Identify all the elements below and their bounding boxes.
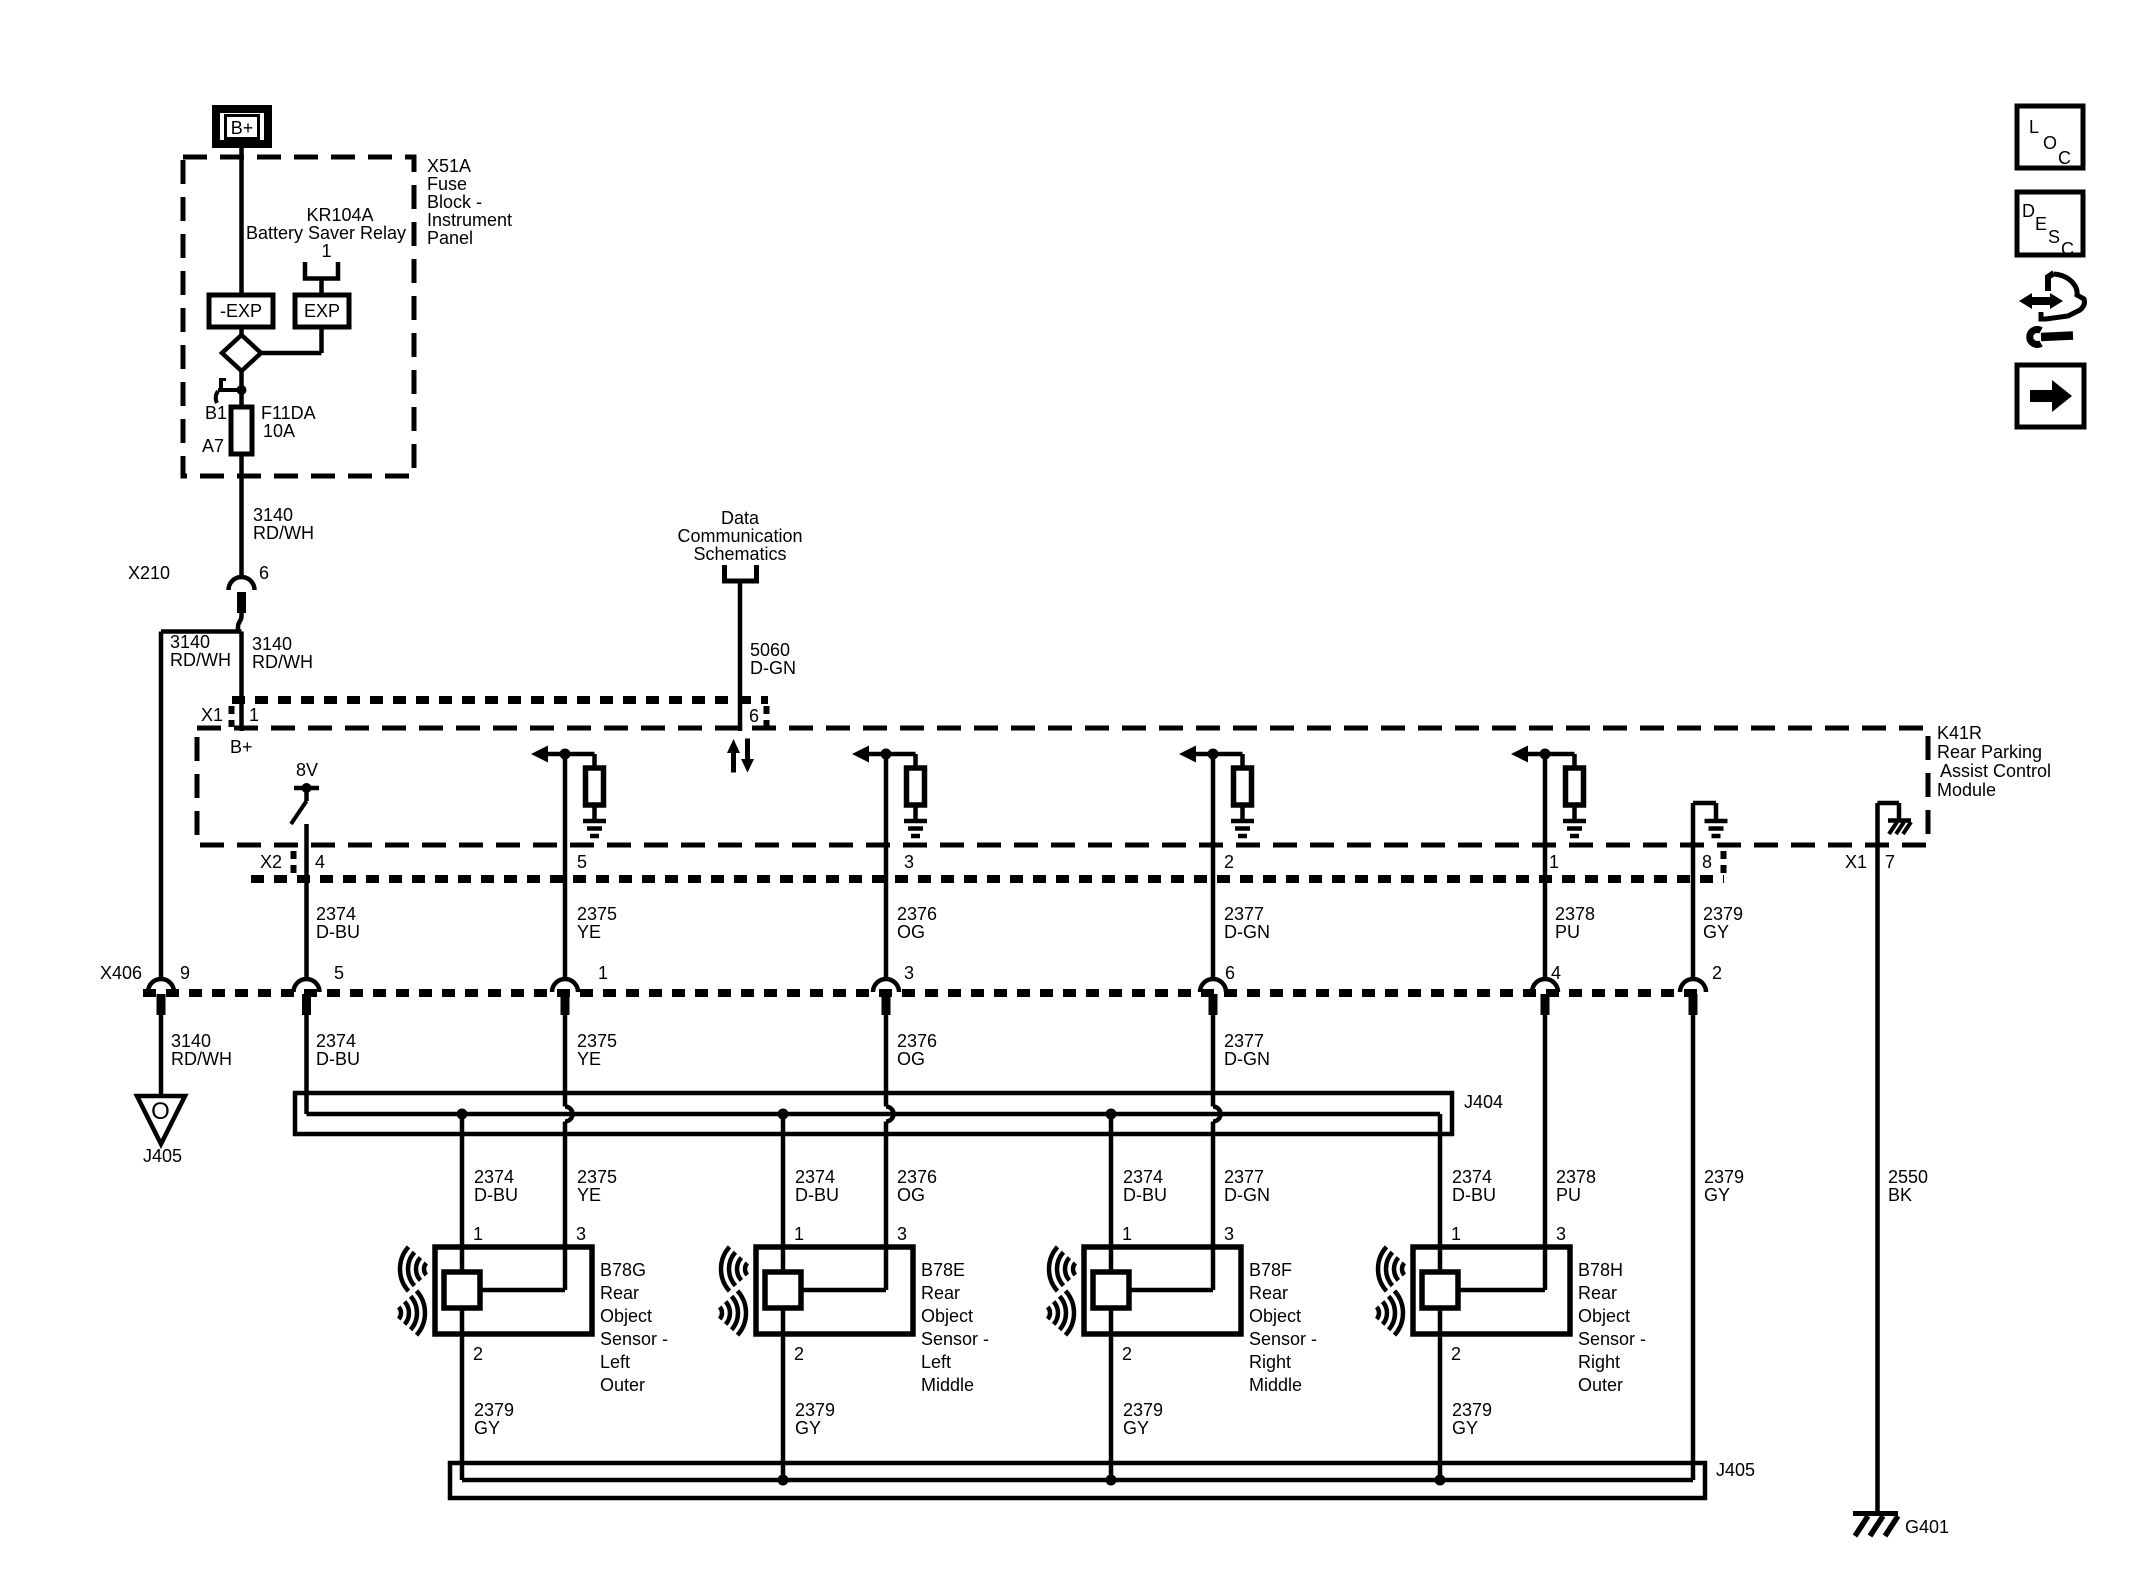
pin 2 of sensor B78F (1122, 1344, 1132, 1364)
pin 1 of X1 (249, 705, 259, 725)
svg-text:BK: BK (1888, 1185, 1912, 1205)
pin 2 of sensor B78G (473, 1344, 483, 1364)
svg-text:Right: Right (1249, 1352, 1291, 1372)
svg-text:1: 1 (598, 963, 608, 983)
wire internal ground to X2 pin 8 (1691, 803, 1696, 978)
pin 1 of sensor B78F (1122, 1224, 1132, 1244)
junction dot on J405 at x=783 (778, 1475, 789, 1486)
label wire 3140 RD/WH below X406 (171, 1031, 232, 1069)
signal arrow, junction, pull resistor R2 and ground inside module channel 2 (531, 746, 606, 837)
svg-text:RD/WH: RD/WH (170, 650, 231, 670)
label wire 2376 OG below J404 (897, 1167, 937, 1205)
svg-text:1: 1 (249, 705, 259, 725)
svg-text:C: C (2058, 148, 2071, 168)
junction dot on J405 at x=1440 (1435, 1475, 1446, 1486)
label X51A Fuse Block - Instrument Panel (427, 156, 512, 248)
svg-text:B78E: B78E (921, 1260, 965, 1280)
ultrasonic sensor B78E box (756, 1247, 913, 1334)
wire 2379 X406 pin 2 to J405 (1691, 1015, 1696, 1480)
pin 3 of X2 (904, 852, 914, 872)
svg-text:3: 3 (576, 1224, 586, 1244)
label wire 5060 D-GN (750, 640, 796, 678)
label wire 2379 GY between X2 and X406 (1703, 904, 1743, 942)
label wire 2374 D-BU sensor drop at x=783 (795, 1167, 839, 1205)
junction dot on J404 at x=1111 (1106, 1109, 1117, 1120)
svg-text:2374: 2374 (474, 1167, 514, 1187)
svg-text:Outer: Outer (600, 1375, 645, 1395)
wire 2374 drop to sensor pin 1 at x=462 (460, 1114, 465, 1272)
svg-text:YE: YE (577, 922, 601, 942)
signal arrow, junction, pull resistor R4 and ground inside module channel 4 (1179, 746, 1254, 837)
svg-text:RD/WH: RD/WH (252, 652, 313, 672)
svg-text:A7: A7 (202, 436, 224, 456)
svg-text:2379: 2379 (1704, 1167, 1744, 1187)
svg-text:2550: 2550 (1888, 1167, 1928, 1187)
signal arrow, junction, pull resistor R5 and ground inside module channel 5 (1511, 746, 1586, 837)
svg-text:OG: OG (897, 1049, 925, 1069)
wire 2379 GY sensor B78E pin 2 to J405 (781, 1308, 786, 1480)
internal wire pin 3 to transducer of B78G (480, 1288, 565, 1293)
svg-text:D-BU: D-BU (795, 1185, 839, 1205)
splice pack J404 outline (295, 1093, 1452, 1134)
relay contact switch (216, 371, 247, 407)
svg-text:3140: 3140 (253, 505, 293, 525)
pin 5 of X2 (577, 852, 587, 872)
svg-text:Right: Right (1578, 1352, 1620, 1372)
label wire 2374 D-BU sensor drop at x=1440 (1452, 1167, 1496, 1205)
svg-text:K41R: K41R (1937, 723, 1982, 743)
pin 5 of X406 with connector symbol (294, 963, 345, 1015)
svg-text:GY: GY (795, 1418, 821, 1438)
icon DESC box (2017, 192, 2083, 259)
icon forward arrow box (2017, 365, 2084, 427)
label wire 2378 PU below J404 (1556, 1167, 1596, 1205)
internal wire pin 3 to transducer of B78F (1129, 1288, 1213, 1293)
connector X210 pin 6 (128, 563, 269, 613)
pin 7 of X1 (1885, 852, 1895, 872)
label X1 at pin 7 exit (1845, 852, 1867, 872)
ultrasonic sensor B78F box (1084, 1247, 1241, 1334)
sound waves icon of B78G (399, 1247, 427, 1335)
svg-text:D-BU: D-BU (316, 1049, 360, 1069)
module K41R dashed outline (197, 728, 1928, 845)
switch contact 8V sensor supply (291, 783, 319, 824)
label wire 2379 GY at sensor B78E (795, 1400, 835, 1438)
label wire 2374 D-BU sensor drop at x=1111 (1123, 1167, 1167, 1205)
svg-text:1: 1 (794, 1224, 804, 1244)
svg-text:Sensor -: Sensor - (921, 1329, 989, 1349)
svg-text:2377: 2377 (1224, 1167, 1264, 1187)
svg-text:B78H: B78H (1578, 1260, 1623, 1280)
svg-text:Rear Parking: Rear Parking (1937, 742, 2042, 762)
internal chassis ground symbol at X1 pin 7 (1878, 803, 1912, 834)
pin 1 of X2 (1549, 852, 1559, 872)
svg-text:Object: Object (921, 1306, 973, 1326)
connector X1 left bracket (229, 706, 235, 727)
connector X2 right bracket (1721, 851, 1727, 875)
label KR104A Battery Saver Relay 1 (246, 205, 406, 261)
label J405 splice pack (1716, 1460, 1755, 1480)
splice bus wire inside J405 (462, 1478, 1693, 1483)
wire 2379 GY sensor B78H pin 2 to J405 (1438, 1308, 1443, 1480)
svg-text:J405: J405 (143, 1146, 182, 1166)
svg-text:D-BU: D-BU (316, 922, 360, 942)
svg-text:Left: Left (600, 1352, 630, 1372)
label sensor B78F (1249, 1260, 1317, 1395)
svg-text:2377: 2377 (1224, 904, 1264, 924)
svg-text:Middle: Middle (1249, 1375, 1302, 1395)
svg-text:Sensor -: Sensor - (1578, 1329, 1646, 1349)
pin 2 of X406 with connector symbol (1680, 963, 1722, 1015)
pin 1 of sensor B78E (794, 1224, 804, 1244)
svg-text:D-BU: D-BU (1452, 1185, 1496, 1205)
label sensor B78E (921, 1260, 989, 1395)
connector X2 left bracket (291, 851, 297, 875)
svg-text:2374: 2374 (795, 1167, 835, 1187)
label wire 2379 GY below J404 (1704, 1167, 1744, 1205)
power symbol B+ (battery positive box) (216, 109, 268, 144)
svg-text:2: 2 (1451, 1344, 1461, 1364)
bidirectional data arrows at X1 pin 6 (727, 739, 754, 773)
svg-text:2376: 2376 (897, 1031, 937, 1051)
label wire 2375 YE between X2 and X406 (577, 904, 617, 942)
svg-text:B+: B+ (231, 118, 254, 138)
wire 2374 into J404 and along splice bus (307, 1015, 1441, 1272)
terminal box -EXP (209, 295, 273, 327)
svg-text:Block -: Block - (427, 192, 482, 212)
svg-text:D-GN: D-GN (1224, 1185, 1270, 1205)
svg-text:OG: OG (897, 1185, 925, 1205)
pin 3 of sensor B78H (1556, 1224, 1566, 1244)
svg-text:X406: X406 (100, 963, 142, 983)
pin 3 of sensor B78E (897, 1224, 907, 1244)
svg-text:2379: 2379 (1703, 904, 1743, 924)
svg-text:2376: 2376 (897, 1167, 937, 1187)
wire channel 2 junction to X2 (563, 754, 568, 978)
connector row X2 dotted line (251, 875, 1724, 883)
pin 2 of sensor B78H (1451, 1344, 1461, 1364)
pin 3 of sensor B78F (1224, 1224, 1234, 1244)
splice pack J405 outline (450, 1463, 1705, 1498)
fuse block X51A dashed outline (183, 157, 414, 476)
svg-text:3140: 3140 (171, 1031, 211, 1051)
wire 2379 GY sensor B78G pin 2 to J405 (460, 1308, 465, 1480)
pin 6 of X406 with connector symbol (1200, 963, 1235, 1015)
relay KR104A coil symbol (305, 262, 338, 295)
wire fuse to connector X210 (239, 454, 244, 577)
connector row X406 dotted line (143, 989, 1706, 997)
svg-text:2379: 2379 (1123, 1400, 1163, 1420)
fuse F11DA 10A (231, 407, 252, 454)
svg-text:5: 5 (577, 852, 587, 872)
svg-text:2374: 2374 (316, 1031, 356, 1051)
pin 6 of X1 (749, 706, 759, 726)
wire 5060 D-GN to module X1 pin 6 (738, 581, 743, 731)
pin 1 of sensor B78G (473, 1224, 483, 1244)
label wire 3140 RD/WH above X210 (253, 505, 314, 543)
svg-text:2379: 2379 (474, 1400, 514, 1420)
label wire 2379 GY at sensor B78H (1452, 1400, 1492, 1438)
svg-text:Assist Control: Assist Control (1940, 761, 2051, 781)
wire 3140 RD/WH X406 pin 9 to J405 reference (159, 1015, 164, 1096)
svg-text:1: 1 (1451, 1224, 1461, 1244)
wire 8V switch to X2 pin 4 (304, 824, 309, 978)
label wire 2378 PU between X2 and X406 (1555, 904, 1595, 942)
connector row X1 dotted line (232, 696, 768, 704)
svg-text:O: O (2043, 133, 2057, 153)
svg-text:2374: 2374 (1123, 1167, 1163, 1187)
svg-text:5060: 5060 (750, 640, 790, 660)
svg-text:Left: Left (921, 1352, 951, 1372)
ground G401 chassis symbol (1853, 1514, 1898, 1537)
pin 2 of X2 (1224, 852, 1234, 872)
wire crossing J404 with hop at x=886 (886, 1015, 894, 1290)
svg-text:10A: 10A (263, 421, 295, 441)
svg-text:2379: 2379 (1452, 1400, 1492, 1420)
svg-text:2375: 2375 (577, 1167, 617, 1187)
label wire 3140 RD/WH right (252, 634, 313, 672)
label J404 (1464, 1092, 1503, 1112)
svg-text:6: 6 (1225, 963, 1235, 983)
junction dot on J404 at x=783 (778, 1109, 789, 1120)
label wire 2379 GY at sensor B78G (474, 1400, 514, 1438)
svg-text:2378: 2378 (1556, 1167, 1596, 1187)
transducer element of B78G (444, 1272, 480, 1308)
svg-text:3: 3 (1556, 1224, 1566, 1244)
svg-text:Panel: Panel (427, 228, 473, 248)
svg-text:OG: OG (897, 922, 925, 942)
svg-text:EXP: EXP (304, 301, 340, 321)
svg-text:D: D (2022, 201, 2035, 221)
signal arrow, junction, pull resistor R3 and ground inside module channel 3 (852, 746, 927, 837)
label wire 2374 D-BU sensor drop at x=462 (474, 1167, 518, 1205)
svg-text:Object: Object (1249, 1306, 1301, 1326)
svg-text:3: 3 (897, 1224, 907, 1244)
svg-text:O: O (151, 1098, 170, 1125)
svg-text:X51A: X51A (427, 156, 471, 176)
svg-text:GY: GY (1123, 1418, 1149, 1438)
wire 2374 drop to sensor pin 1 at x=783 (781, 1114, 786, 1272)
pin 8 of X2 (1702, 852, 1712, 872)
svg-text:3140: 3140 (170, 632, 210, 652)
connector X1 right bracket (764, 706, 770, 727)
svg-text:Schematics: Schematics (693, 544, 786, 564)
wire channel 3 junction to X2 (884, 754, 889, 978)
svg-text:D-GN: D-GN (750, 658, 796, 678)
svg-text:Object: Object (1578, 1306, 1630, 1326)
svg-text:F11DA: F11DA (261, 403, 316, 423)
svg-text:Outer: Outer (1578, 1375, 1623, 1395)
svg-text:D-GN: D-GN (1224, 1049, 1270, 1069)
label X406 (100, 963, 142, 983)
pin 1 of X406 with connector symbol (552, 963, 608, 1015)
wire 3140 RD/WH left feed down to X406 pin 9 (159, 632, 164, 979)
svg-text:2375: 2375 (577, 904, 617, 924)
wire channel 5 junction to X2 (1543, 754, 1548, 978)
svg-text:YE: YE (577, 1185, 601, 1205)
terminal box EXP (295, 295, 349, 327)
svg-text:2375: 2375 (577, 1031, 617, 1051)
svg-text:2: 2 (1224, 852, 1234, 872)
label wire 2376 OG between X406 and J404 (897, 1031, 937, 1069)
svg-text:Sensor -: Sensor - (600, 1329, 668, 1349)
svg-text:2374: 2374 (316, 904, 356, 924)
svg-text:B78F: B78F (1249, 1260, 1292, 1280)
label wire 2374 D-BU between X406 and J404 (316, 1031, 360, 1069)
wire 2550 BK module X1 pin 7 to ground G401 (1875, 803, 1880, 1513)
off-page reference Data Communication Schematics (677, 508, 802, 581)
svg-text:2: 2 (473, 1344, 483, 1364)
label wire 2374 D-BU between X2 and X406 (316, 904, 360, 942)
svg-text:8: 8 (1702, 852, 1712, 872)
wire X210 to module X1 pin 1 (238, 613, 242, 731)
svg-text:B+: B+ (230, 737, 253, 757)
svg-text:2374: 2374 (1452, 1167, 1492, 1187)
svg-text:6: 6 (259, 563, 269, 583)
svg-text:Battery Saver Relay: Battery Saver Relay (246, 223, 406, 243)
pin 4 of X2 (315, 852, 325, 872)
svg-text:J405: J405 (1716, 1460, 1755, 1480)
pin 3 of X406 with connector symbol (873, 963, 914, 1015)
svg-text:G401: G401 (1905, 1517, 1949, 1537)
svg-text:RD/WH: RD/WH (253, 523, 314, 543)
svg-text:J404: J404 (1464, 1092, 1503, 1112)
svg-text:3: 3 (904, 963, 914, 983)
svg-text:L: L (2029, 117, 2039, 137)
ultrasonic sensor B78G box (435, 1247, 592, 1334)
off-page reference triangle J405 splice O (137, 1096, 185, 1166)
diamond junction node (222, 335, 261, 371)
svg-text:1: 1 (321, 241, 331, 261)
svg-text:1: 1 (1122, 1224, 1132, 1244)
svg-text:3140: 3140 (252, 634, 292, 654)
icon diagram switch with arrows and wrench (2019, 273, 2085, 345)
svg-text:Sensor -: Sensor - (1249, 1329, 1317, 1349)
sound waves icon of B78E (720, 1247, 748, 1335)
pin 2 of sensor B78E (794, 1344, 804, 1364)
label wire 2377 D-GN between X406 and J404 (1224, 1031, 1270, 1069)
junction dot on J404 at x=462 (457, 1109, 468, 1120)
svg-text:RD/WH: RD/WH (171, 1049, 232, 1069)
svg-text:Data: Data (721, 508, 760, 528)
pin 9 of X406 with connector symbol (148, 963, 190, 1015)
label wire 2377 D-GN below J404 (1224, 1167, 1270, 1205)
wire 2379 GY sensor B78F pin 2 to J405 (1109, 1308, 1114, 1480)
label wire 2375 YE below J404 (577, 1167, 617, 1205)
svg-text:B1: B1 (205, 403, 227, 423)
internal ground symbol at X2 pin 8 (1693, 803, 1728, 836)
svg-text:4: 4 (315, 852, 325, 872)
pin 1 of sensor B78H (1451, 1224, 1461, 1244)
sound waves icon of B78H (1377, 1247, 1405, 1335)
wire EXP to diamond node (261, 327, 322, 353)
svg-text:2376: 2376 (897, 904, 937, 924)
label X2 (260, 852, 282, 872)
svg-text:D-BU: D-BU (474, 1185, 518, 1205)
svg-text:GY: GY (1704, 1185, 1730, 1205)
svg-text:3: 3 (904, 852, 914, 872)
transducer element of B78H (1422, 1272, 1458, 1308)
svg-text:KR104A: KR104A (306, 205, 373, 225)
svg-text:2379: 2379 (795, 1400, 835, 1420)
pin 3 of sensor B78G (576, 1224, 586, 1244)
svg-text:Rear: Rear (921, 1283, 960, 1303)
wire channel 4 junction to X2 (1211, 754, 1216, 978)
svg-text:Object: Object (600, 1306, 652, 1326)
svg-text:Rear: Rear (1578, 1283, 1617, 1303)
pin 4 of X406 with connector symbol (1532, 963, 1561, 1015)
svg-text:S: S (2048, 227, 2060, 247)
svg-text:7: 7 (1885, 852, 1895, 872)
svg-text:Middle: Middle (921, 1375, 974, 1395)
svg-text:9: 9 (180, 963, 190, 983)
svg-text:GY: GY (1452, 1418, 1478, 1438)
wire branch to left feed (161, 629, 242, 634)
svg-text:Communication: Communication (677, 526, 802, 546)
wire crossing J404 with hop at x=565 (565, 1015, 573, 1290)
transducer element of B78E (765, 1272, 801, 1308)
label 8V internal supply (296, 760, 318, 780)
svg-text:GY: GY (474, 1418, 500, 1438)
svg-text:X2: X2 (260, 852, 282, 872)
svg-text:1: 1 (1549, 852, 1559, 872)
svg-text:2: 2 (1712, 963, 1722, 983)
node B+ inside module (230, 737, 253, 757)
svg-text:X1: X1 (1845, 852, 1867, 872)
wire crossing J404 with hop at x=1213 (1213, 1015, 1221, 1290)
wire 2378 X406 pin 4 to sensor B78H pin 3 (1543, 1015, 1548, 1290)
svg-text:Rear: Rear (1249, 1283, 1288, 1303)
ultrasonic sensor B78H box (1413, 1247, 1570, 1334)
svg-text:2: 2 (794, 1344, 804, 1364)
svg-text:E: E (2035, 214, 2047, 234)
svg-text:6: 6 (749, 706, 759, 726)
wire 2374 drop to sensor pin 1 at x=1111 (1109, 1114, 1114, 1272)
label G401 (1905, 1517, 1949, 1537)
svg-text:2: 2 (1122, 1344, 1132, 1364)
svg-text:Rear: Rear (600, 1283, 639, 1303)
svg-text:Module: Module (1937, 780, 1996, 800)
svg-text:2377: 2377 (1224, 1031, 1264, 1051)
svg-text:8V: 8V (296, 760, 318, 780)
svg-text:GY: GY (1703, 922, 1729, 942)
svg-text:-EXP: -EXP (220, 301, 262, 321)
label wire 2550 BK below J404 (1888, 1167, 1928, 1205)
labels B1 A7 F11DA 10A fuse terminals (202, 403, 316, 456)
svg-text:Instrument: Instrument (427, 210, 512, 230)
transducer element of B78F (1093, 1272, 1129, 1308)
svg-text:3: 3 (1224, 1224, 1234, 1244)
svg-text:1: 1 (473, 1224, 483, 1244)
label sensor B78G (600, 1260, 668, 1395)
svg-text:YE: YE (577, 1049, 601, 1069)
svg-text:C: C (2061, 239, 2074, 259)
sound waves icon of B78F (1048, 1247, 1076, 1335)
wire from B+ to -EXP box (239, 148, 244, 335)
svg-text:B78G: B78G (600, 1260, 646, 1280)
svg-text:D-GN: D-GN (1224, 922, 1270, 942)
label K41R Rear Parking Assist Control Module (1937, 723, 2051, 800)
svg-text:PU: PU (1556, 1185, 1581, 1205)
svg-text:Fuse: Fuse (427, 174, 467, 194)
junction dot on J405 at x=1111 (1106, 1475, 1117, 1486)
label wire 2377 D-GN between X2 and X406 (1224, 904, 1270, 942)
svg-text:D-BU: D-BU (1123, 1185, 1167, 1205)
svg-text:2378: 2378 (1555, 904, 1595, 924)
label wire 2379 GY at sensor B78F (1123, 1400, 1163, 1438)
internal wire pin 3 to transducer of B78H (1458, 1288, 1545, 1293)
svg-text:PU: PU (1555, 922, 1580, 942)
